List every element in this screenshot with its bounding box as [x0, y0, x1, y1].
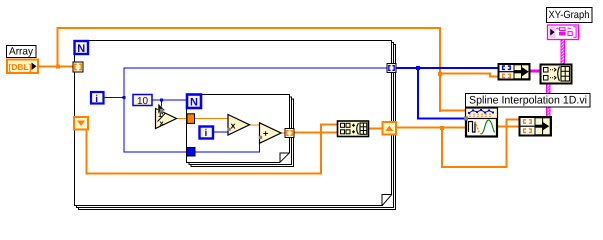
svg-text:XY-Graph: XY-Graph	[549, 9, 590, 21]
svg-text:Array: Array	[9, 46, 34, 58]
svg-text:N: N	[77, 43, 85, 55]
svg-text:10: 10	[137, 96, 149, 107]
svg-text:i: i	[95, 94, 98, 105]
svg-text:Spline Interpolation 1D.vi: Spline Interpolation 1D.vi	[469, 95, 587, 107]
svg-text:N: N	[190, 97, 198, 109]
svg-text:x: x	[231, 121, 236, 131]
svg-text:i: i	[205, 128, 208, 139]
svg-text:[DBL]: [DBL]	[9, 62, 32, 72]
svg-text:+: +	[263, 129, 268, 139]
